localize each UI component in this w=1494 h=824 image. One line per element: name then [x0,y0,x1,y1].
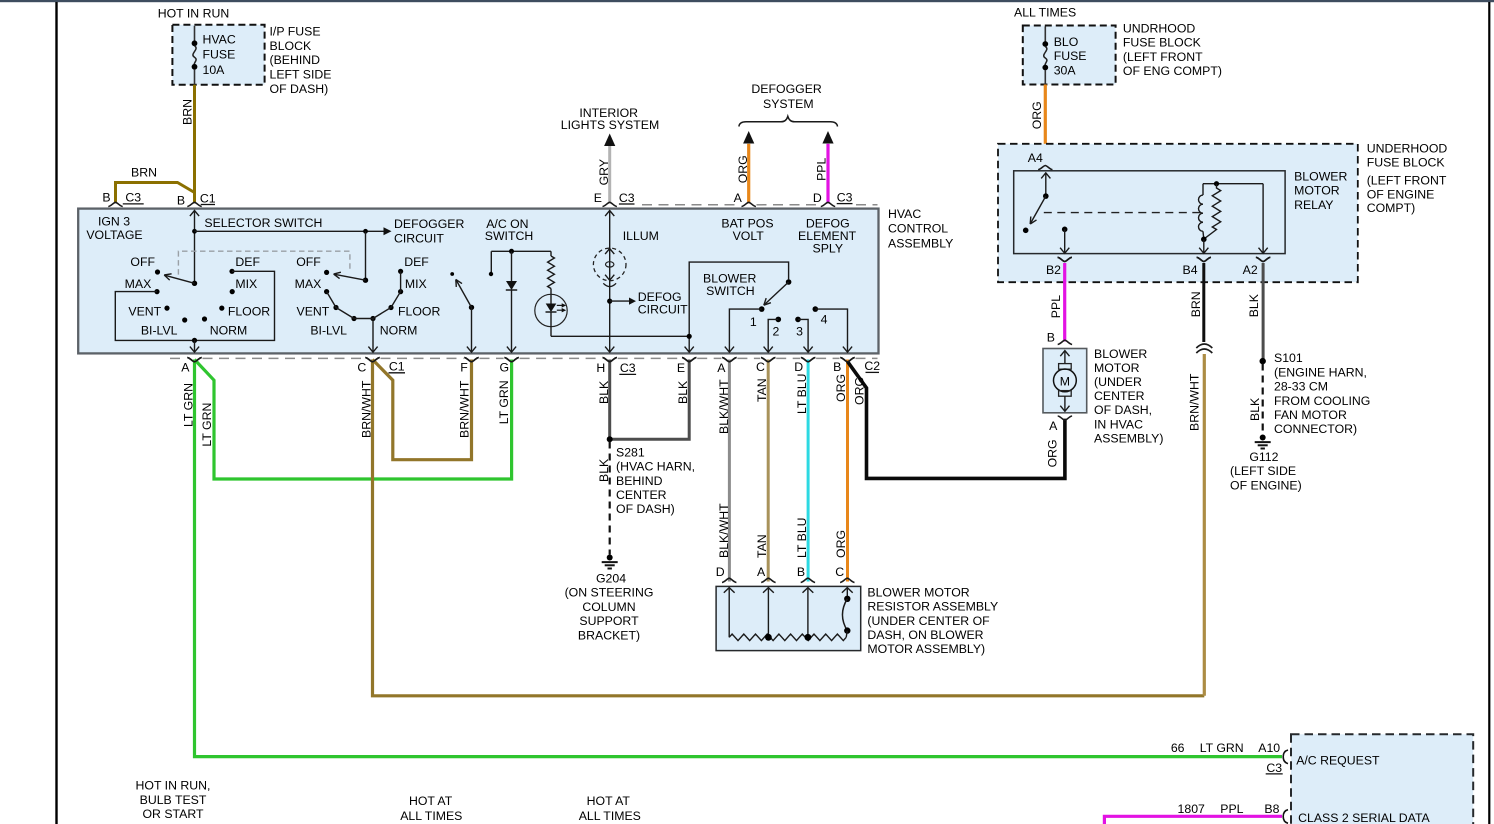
svg-text:H: H [596,361,605,375]
svg-text:SUPPORT: SUPPORT [579,614,639,628]
svg-text:A4: A4 [1028,151,1043,165]
svg-text:C1: C1 [389,360,405,374]
svg-text:SYSTEM: SYSTEM [763,97,814,111]
svg-text:HOT IN RUN: HOT IN RUN [158,7,230,21]
svg-text:B: B [102,191,110,205]
svg-text:OFF: OFF [130,255,155,269]
svg-text:UNDRHOOD: UNDRHOOD [1123,21,1196,35]
svg-text:GRY: GRY [597,159,611,185]
svg-text:ALL TIMES: ALL TIMES [400,809,462,823]
svg-text:C1: C1 [200,192,216,206]
svg-text:BLOWER: BLOWER [1294,170,1347,184]
svg-text:1: 1 [750,315,757,329]
svg-text:CLASS 2 SERIAL DATA: CLASS 2 SERIAL DATA [1298,811,1430,824]
svg-text:LIGHTS SYSTEM: LIGHTS SYSTEM [561,118,659,132]
svg-text:SWITCH: SWITCH [706,284,755,298]
svg-text:VOLTAGE: VOLTAGE [86,228,142,242]
svg-text:FUSE BLOCK: FUSE BLOCK [1367,156,1446,170]
svg-text:VENT: VENT [128,304,161,318]
svg-text:OF DASH,: OF DASH, [1094,403,1152,417]
svg-text:ASSEMBLY): ASSEMBLY) [1094,431,1163,445]
svg-text:BLOWER: BLOWER [1094,347,1147,361]
svg-text:HVAC: HVAC [203,32,236,46]
svg-text:ILLUM: ILLUM [623,229,659,243]
svg-text:FAN MOTOR: FAN MOTOR [1274,408,1347,422]
svg-text:TAN: TAN [755,378,769,402]
svg-text:(ENGINE HARN,: (ENGINE HARN, [1274,365,1367,379]
svg-text:D: D [813,191,822,205]
svg-text:ORG: ORG [834,530,848,558]
svg-text:A10: A10 [1258,741,1280,755]
svg-text:BRN: BRN [131,166,157,180]
svg-text:LT GRN: LT GRN [497,380,511,424]
svg-text:MIX: MIX [405,277,427,291]
svg-text:B: B [1047,330,1055,344]
svg-text:COMPT): COMPT) [1367,201,1416,215]
svg-text:FROM COOLING: FROM COOLING [1274,394,1370,408]
svg-text:G: G [500,361,510,375]
svg-text:BLOCK: BLOCK [270,39,312,53]
svg-text:E: E [594,191,602,205]
svg-text:CENTER: CENTER [616,488,667,502]
svg-text:COLUMN: COLUMN [582,600,635,614]
svg-text:NORM: NORM [210,324,248,338]
svg-text:FUSE BLOCK: FUSE BLOCK [1123,36,1202,50]
svg-text:LT BLU: LT BLU [795,373,809,414]
svg-text:4: 4 [821,312,828,326]
svg-text:MOTOR ASSEMBLY): MOTOR ASSEMBLY) [867,642,985,656]
svg-text:I/P FUSE: I/P FUSE [270,25,321,39]
svg-text:OF DASH): OF DASH) [270,82,329,96]
svg-text:A: A [734,191,743,205]
svg-text:HVAC: HVAC [888,207,921,221]
svg-text:(LEFT SIDE: (LEFT SIDE [1230,464,1296,478]
svg-text:ORG: ORG [736,155,750,183]
svg-text:G112: G112 [1249,450,1278,464]
svg-text:VENT: VENT [297,304,330,318]
svg-text:A: A [757,565,766,579]
svg-text:SELECTOR SWITCH: SELECTOR SWITCH [204,216,322,230]
svg-text:UNDERHOOD: UNDERHOOD [1367,142,1448,156]
svg-text:OF ENG COMPT): OF ENG COMPT) [1123,64,1222,78]
svg-text:CIRCUIT: CIRCUIT [394,231,444,245]
svg-text:SPLY: SPLY [813,241,844,255]
svg-text:LT BLU: LT BLU [795,517,809,558]
svg-text:FLOOR: FLOOR [228,304,270,318]
svg-text:A/C REQUEST: A/C REQUEST [1296,753,1380,767]
svg-text:2: 2 [772,324,779,338]
svg-text:MIX: MIX [235,277,257,291]
svg-text:28-33 CM: 28-33 CM [1274,380,1328,394]
svg-text:BRN: BRN [1189,291,1203,317]
svg-text:BRN/WHT: BRN/WHT [360,380,374,438]
svg-text:CIRCUIT: CIRCUIT [638,303,688,317]
svg-text:FLOOR: FLOOR [398,304,440,318]
svg-text:B4: B4 [1183,263,1198,277]
svg-text:HOT AT: HOT AT [409,794,453,808]
svg-text:BRN/WHT: BRN/WHT [1187,373,1201,431]
svg-text:S281: S281 [616,445,645,459]
svg-text:HOT IN RUN,: HOT IN RUN, [136,779,211,793]
svg-text:LT GRN: LT GRN [200,403,214,447]
svg-text:C3: C3 [620,361,636,375]
svg-text:D: D [794,360,803,374]
svg-text:BLK: BLK [676,380,690,404]
svg-text:RELAY: RELAY [1294,198,1333,212]
svg-text:ALL TIMES: ALL TIMES [1014,6,1076,20]
svg-text:3: 3 [796,324,803,338]
svg-text:E: E [677,361,685,375]
svg-text:CONTROL: CONTROL [888,222,948,236]
svg-text:CENTER: CENTER [1094,389,1145,403]
svg-text:BLO: BLO [1054,35,1079,49]
svg-text:C3: C3 [619,191,635,205]
svg-text:C3: C3 [1266,761,1282,775]
svg-text:NORM: NORM [380,324,418,338]
svg-text:M: M [1060,375,1070,389]
svg-text:BRN/WHT: BRN/WHT [457,380,471,438]
svg-text:PPL: PPL [1220,802,1243,816]
svg-text:LEFT SIDE: LEFT SIDE [270,68,332,82]
svg-text:C: C [756,360,765,374]
svg-text:1807: 1807 [1178,802,1206,816]
svg-text:ASSEMBLY: ASSEMBLY [888,236,953,250]
svg-text:A: A [1049,419,1058,433]
svg-text:PPL: PPL [815,157,829,180]
svg-text:(UNDER CENTER OF: (UNDER CENTER OF [867,614,990,628]
svg-text:DEFOGGER: DEFOGGER [751,82,821,96]
svg-text:MAX: MAX [125,277,152,291]
svg-text:F: F [460,361,468,375]
svg-text:B8: B8 [1264,802,1279,816]
svg-text:C3: C3 [837,190,853,204]
svg-text:A: A [717,361,726,375]
svg-text:C3: C3 [125,191,141,205]
svg-text:BLOWER MOTOR: BLOWER MOTOR [867,585,969,599]
svg-text:(HVAC HARN,: (HVAC HARN, [616,460,695,474]
svg-text:D: D [716,565,725,579]
svg-text:A: A [181,361,190,375]
svg-text:OF ENGINE): OF ENGINE) [1230,478,1302,492]
svg-text:BI-LVL: BI-LVL [310,324,347,338]
svg-text:PPL: PPL [1049,295,1063,318]
svg-text:BLK: BLK [1247,293,1261,317]
svg-text:(ON STEERING: (ON STEERING [565,586,654,600]
svg-text:(LEFT FRONT: (LEFT FRONT [1367,173,1447,187]
svg-text:ORG: ORG [1030,101,1044,129]
svg-text:S101: S101 [1274,351,1303,365]
svg-text:FUSE: FUSE [203,48,236,62]
svg-text:BLK: BLK [597,458,611,482]
svg-text:OF DASH): OF DASH) [616,502,675,516]
svg-text:BI-LVL: BI-LVL [141,324,178,338]
svg-text:(BEHIND: (BEHIND [270,53,321,67]
svg-text:C: C [835,565,844,579]
svg-text:OR START: OR START [142,807,204,821]
svg-text:DEFOGGER: DEFOGGER [394,217,464,231]
svg-text:VOLT: VOLT [733,229,765,243]
svg-text:LT GRN: LT GRN [181,383,195,427]
svg-text:B: B [177,194,185,208]
svg-text:MOTOR: MOTOR [1294,184,1340,198]
svg-text:66: 66 [1171,741,1185,755]
svg-text:ORG: ORG [853,377,867,405]
svg-text:BEHIND: BEHIND [616,474,663,488]
svg-text:DEF: DEF [235,255,260,269]
svg-text:DEF: DEF [404,255,429,269]
svg-text:C: C [357,361,366,375]
svg-text:ORG: ORG [834,374,848,402]
svg-text:BRN: BRN [181,99,195,125]
svg-text:OF ENGINE: OF ENGINE [1367,187,1435,201]
svg-text:G204: G204 [596,572,626,586]
svg-text:BLK/WHT: BLK/WHT [717,379,731,434]
svg-text:B: B [797,565,805,579]
svg-text:(UNDER: (UNDER [1094,375,1142,389]
svg-text:C2: C2 [864,359,880,373]
svg-text:DASH, ON BLOWER: DASH, ON BLOWER [867,628,983,642]
svg-text:HOT AT: HOT AT [587,794,631,808]
svg-text:MOTOR: MOTOR [1094,361,1140,375]
svg-text:IGN 3: IGN 3 [98,214,130,228]
svg-text:RESISTOR ASSEMBLY: RESISTOR ASSEMBLY [867,600,998,614]
svg-text:B2: B2 [1046,263,1061,277]
svg-text:A2: A2 [1243,263,1258,277]
svg-text:ALL TIMES: ALL TIMES [579,809,641,823]
svg-text:TAN: TAN [755,534,769,558]
svg-text:MAX: MAX [295,277,322,291]
svg-text:(LEFT FRONT: (LEFT FRONT [1123,50,1203,64]
svg-text:BRACKET): BRACKET) [578,628,640,642]
svg-text:ORG: ORG [1045,439,1059,467]
svg-text:BLK: BLK [1248,397,1262,421]
svg-text:BLK: BLK [597,380,611,404]
svg-text:10A: 10A [203,63,226,77]
svg-text:BULB TEST: BULB TEST [140,793,207,807]
svg-text:FUSE: FUSE [1054,49,1087,63]
svg-text:CONNECTOR): CONNECTOR) [1274,422,1357,436]
svg-text:BLK/WHT: BLK/WHT [717,503,731,558]
svg-text:SWITCH: SWITCH [485,229,534,243]
svg-text:IN HVAC: IN HVAC [1094,417,1143,431]
svg-text:OFF: OFF [296,255,321,269]
svg-text:30A: 30A [1054,63,1077,77]
svg-text:LT GRN: LT GRN [1200,741,1244,755]
svg-text:B: B [833,360,841,374]
